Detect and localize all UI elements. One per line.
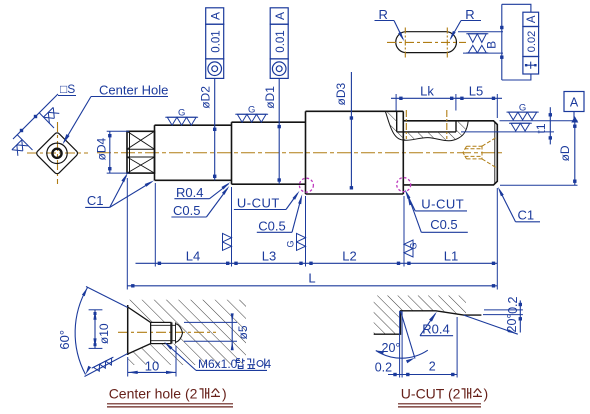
dimension oD bbox=[500, 121, 578, 185]
surface finish G triangles on OD extension bbox=[507, 103, 539, 120]
svg-text:øD1: øD1 bbox=[263, 86, 277, 109]
square-S dimension line with extensions bbox=[13, 94, 58, 150]
surface finish double triangles bottom mirrored bbox=[466, 45, 488, 53]
svg-text:20°: 20° bbox=[382, 341, 401, 355]
label R0.4 in u-cut detail with leader bbox=[420, 312, 453, 337]
u-cut 20 degree wall line bbox=[401, 311, 416, 359]
end view center hole circle bbox=[52, 149, 61, 158]
knurled section OD4 outline bbox=[127, 131, 155, 173]
center hole bore interior bbox=[128, 307, 183, 354]
svg-text:øD3: øD3 bbox=[334, 83, 348, 106]
U-CUT marker circle left bbox=[299, 178, 313, 192]
frame bracket to parallelism frame bbox=[502, 4, 531, 80]
svg-text:): ) bbox=[484, 386, 489, 402]
svg-text:0.02: 0.02 bbox=[526, 31, 538, 52]
surface finish triangles on 60 degree extension bbox=[92, 357, 117, 374]
svg-text:L5: L5 bbox=[469, 84, 483, 99]
svg-text:B: B bbox=[485, 41, 499, 49]
dimension oD3 bbox=[334, 72, 353, 190]
svg-text:): ) bbox=[222, 386, 227, 402]
svg-text:G: G bbox=[409, 242, 419, 249]
keyway slot end wall bbox=[455, 121, 457, 132]
svg-text:0.01: 0.01 bbox=[275, 30, 287, 52]
tolerance frame concentricity 0.01 A (left) bbox=[206, 8, 224, 79]
dimension L3 bbox=[232, 249, 306, 266]
shaft section OD3 outline bbox=[306, 111, 404, 194]
u-cut right 20 degree wedge bbox=[464, 314, 523, 335]
knurl cross pattern lower bbox=[127, 157, 155, 173]
center hole detail centerline bbox=[118, 331, 216, 333]
u-cut detail hatching bbox=[374, 296, 466, 335]
surface finish triangles on keyway floor extension bbox=[509, 123, 532, 131]
keyway plan centerlines bbox=[387, 28, 466, 58]
extension lines for length dimensions bbox=[127, 178, 497, 290]
label B rotated bbox=[485, 41, 499, 49]
keyway width extension lines bbox=[458, 32, 503, 53]
svg-text:C0.5: C0.5 bbox=[430, 217, 457, 232]
svg-text:C1: C1 bbox=[518, 208, 535, 223]
end view centerlines bbox=[27, 122, 88, 184]
shoulder finish triangles at L3-L2 boundary with G bbox=[286, 233, 306, 250]
surface finish mark lower on end view bbox=[12, 140, 28, 156]
svg-text:R0.4: R0.4 bbox=[422, 322, 449, 337]
label Center Hole with leader bbox=[63, 83, 169, 145]
u-cut detail profile bbox=[374, 311, 482, 334]
svg-text:10: 10 bbox=[145, 358, 159, 373]
center hole face line bbox=[127, 305, 129, 355]
tolerance frame concentricity 0.01 A (right) bbox=[270, 8, 288, 79]
svg-text:Center hole (2: Center hole (2 bbox=[109, 386, 198, 402]
svg-text:C0.5: C0.5 bbox=[258, 218, 285, 233]
center hole cone lines bbox=[128, 307, 151, 354]
u-cut dimension 0.2 and 2 line bbox=[375, 317, 457, 378]
center hole detail hatching bbox=[128, 300, 246, 365]
svg-text:C1: C1 bbox=[87, 193, 104, 208]
keyway slot left wall bbox=[396, 111, 398, 132]
svg-text:2: 2 bbox=[429, 360, 436, 374]
svg-text:60°: 60° bbox=[57, 330, 72, 350]
shaft section OD2 outline bbox=[155, 125, 232, 180]
dimension L2 bbox=[306, 249, 405, 266]
end view square outline bbox=[35, 132, 78, 175]
label R0.4 with leader bbox=[174, 182, 230, 200]
surface finish G triangles over OD1 bbox=[235, 105, 268, 123]
svg-text:L2: L2 bbox=[342, 249, 356, 264]
dimension L overall bbox=[127, 271, 497, 288]
keyway slot floor bbox=[397, 131, 456, 133]
svg-text:L1: L1 bbox=[444, 249, 458, 264]
keyway hatching right of end wall bbox=[449, 121, 468, 141]
svg-text:G: G bbox=[178, 108, 185, 119]
label C1 left with two leaders bbox=[85, 173, 154, 208]
svg-text:U-CUT (2: U-CUT (2 bbox=[401, 386, 461, 402]
keyway hatching below floor bbox=[394, 132, 456, 141]
label M6x1.0 tap depth 4 with leader bbox=[164, 342, 272, 371]
dimension L1 bbox=[404, 249, 497, 266]
svg-text:U-CUT: U-CUT bbox=[421, 197, 464, 212]
keyway centerline right bbox=[446, 110, 448, 139]
svg-text:R: R bbox=[465, 7, 474, 22]
svg-text:0.2: 0.2 bbox=[375, 361, 392, 375]
shoulder finish triangles at L2-L1 boundary with G bbox=[404, 240, 419, 257]
svg-text:t1: t1 bbox=[534, 123, 548, 133]
svg-text:R0.4: R0.4 bbox=[176, 185, 203, 200]
surface finish G triangles over OD2 bbox=[165, 108, 198, 126]
tolerance frame 0.02 A (top right) bbox=[523, 12, 539, 74]
keyway hatching left sliver bbox=[386, 112, 397, 134]
svg-text:øD: øD bbox=[558, 145, 572, 161]
extension line of OD top edge bbox=[500, 120, 578, 122]
svg-text:G: G bbox=[248, 105, 255, 116]
shaft section OD right outline with end chamfer bbox=[403, 111, 497, 194]
svg-text:A: A bbox=[570, 96, 579, 110]
label square S bbox=[58, 82, 76, 96]
svg-text:0.01: 0.01 bbox=[210, 30, 222, 52]
svg-text:øD2: øD2 bbox=[198, 86, 212, 109]
svg-text:4: 4 bbox=[265, 357, 272, 371]
label R left with leader bbox=[375, 7, 405, 41]
broken-out section wavy line bbox=[386, 112, 469, 141]
svg-text:L4: L4 bbox=[186, 249, 200, 264]
label C0.5 second with leader bbox=[257, 194, 302, 233]
title Center hole (2 places) bbox=[107, 386, 233, 407]
svg-text:M6x1.0: M6x1.0 bbox=[198, 357, 238, 371]
label C1 right with leader bbox=[498, 187, 540, 223]
knurl cross pattern upper bbox=[127, 131, 155, 149]
u-cut 20 degree arc bbox=[376, 341, 428, 363]
center hole drill tip bbox=[176, 324, 183, 343]
keyway centerline left bbox=[405, 110, 407, 139]
svg-text:0.2: 0.2 bbox=[506, 296, 520, 313]
datum A box with leader bbox=[564, 92, 584, 123]
tapped hole M6 hidden lines bbox=[463, 137, 497, 169]
surface finish mark upper on end view bbox=[43, 107, 59, 123]
svg-text:L3: L3 bbox=[262, 249, 276, 264]
svg-text:A: A bbox=[526, 15, 538, 23]
svg-text:øD4: øD4 bbox=[94, 138, 108, 161]
dimension 10 bbox=[128, 346, 176, 377]
dimension o10 bbox=[89, 310, 112, 349]
U-CUT marker circle right bbox=[397, 178, 411, 192]
shoulder finish triangles at L4-L3 boundary bbox=[223, 233, 232, 250]
keyway width b dimension line with dots bbox=[500, 4, 503, 80]
svg-text:20°: 20° bbox=[505, 314, 519, 333]
label U-CUT first with leader bbox=[234, 191, 300, 211]
svg-text:G: G bbox=[519, 103, 526, 114]
u-cut 0.2 width extension lines bbox=[400, 311, 403, 378]
center hole thread section bbox=[151, 322, 176, 343]
label C0.5 third with leader bbox=[408, 196, 468, 233]
title U-CUT (2 places) bbox=[398, 386, 488, 407]
dimension t1 bbox=[534, 107, 552, 144]
label U-CUT second with leader bbox=[405, 189, 467, 211]
svg-text:ø5: ø5 bbox=[236, 325, 250, 339]
end view outer circle bbox=[47, 143, 67, 163]
svg-text:L: L bbox=[308, 271, 315, 286]
surface finish double triangles top on keyway bbox=[466, 34, 488, 43]
dimension oD2 with line from frame bbox=[198, 78, 216, 180]
label C0.5 first with leader bbox=[171, 186, 229, 218]
dimension L5 bbox=[456, 84, 502, 119]
svg-text:A: A bbox=[273, 12, 287, 20]
extension line of keyway floor bbox=[461, 131, 554, 133]
dimension oD4 bbox=[94, 131, 129, 173]
keyway slot plan view obround bbox=[396, 32, 457, 53]
dimension oD1 with line from frame bbox=[263, 78, 281, 184]
main shaft centerline bbox=[97, 152, 503, 154]
dimension o5 bbox=[184, 313, 250, 350]
svg-text:□S: □S bbox=[60, 82, 75, 96]
svg-text:A: A bbox=[208, 12, 222, 20]
svg-text:R: R bbox=[379, 7, 388, 22]
svg-text:U-CUT: U-CUT bbox=[237, 196, 280, 211]
dimension L4 bbox=[136, 249, 232, 266]
svg-text:C0.5: C0.5 bbox=[173, 203, 200, 218]
svg-text:G: G bbox=[286, 240, 296, 247]
svg-text:ø10: ø10 bbox=[97, 323, 111, 344]
dimension Lk bbox=[391, 84, 460, 111]
u-cut right 0.2 depth dimension bbox=[484, 296, 523, 332]
svg-text:Lk: Lk bbox=[420, 84, 434, 99]
shaft section OD1 outline bbox=[232, 122, 306, 184]
60 degree dimension arc with extensions bbox=[57, 287, 128, 377]
svg-text:Center Hole: Center Hole bbox=[99, 83, 168, 98]
label R right with leader bbox=[450, 7, 481, 41]
